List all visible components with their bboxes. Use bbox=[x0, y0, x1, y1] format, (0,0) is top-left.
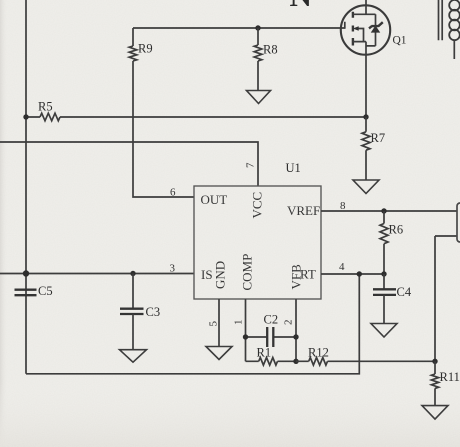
node: dot RT / bottom-loop wire bbox=[357, 271, 362, 276]
resistor R12 bbox=[296, 360, 435, 362]
node: dot C3 / IS net bbox=[130, 271, 135, 276]
transistor Q1 (N-MOSFET) bbox=[341, 0, 407, 117]
ground below R11 bbox=[422, 406, 448, 420]
resistor R9 bbox=[133, 28, 194, 197]
wire: VREF pin 8 net y=211 bbox=[321, 210, 457, 212]
wire: R11 branch to connector bbox=[435, 236, 457, 361]
node: dot RT / R6 / C4 bbox=[381, 271, 386, 276]
wire: gate net top y=28 bbox=[133, 27, 345, 29]
resistor R5 bbox=[40, 113, 60, 121]
node: dot R8 top bbox=[255, 25, 260, 30]
node: dot R6 top bbox=[381, 208, 386, 213]
wire: R5 net horizontal y=117 bbox=[26, 116, 366, 118]
ground below C3 bbox=[120, 350, 147, 363]
node: dot left rail / IS net bbox=[23, 270, 29, 276]
resistor R6 bbox=[383, 211, 385, 274]
ground below C4 bbox=[371, 324, 397, 338]
wire: VFB pin 2 down to R1 row bbox=[295, 299, 297, 361]
capacitor C3 bbox=[132, 274, 134, 309]
connector / off-page part at right edge bbox=[457, 203, 460, 242]
resistor R8 bbox=[257, 28, 259, 91]
wire: IS net horizontal y=273.5 bbox=[0, 273, 194, 275]
wire: GND pin 5 bbox=[218, 299, 220, 347]
node: dot R1 / R12 / VFB bbox=[293, 359, 298, 364]
wire: left vertical rail x=26 bbox=[25, 0, 27, 374]
node: junction dot left rail / R5 bbox=[23, 114, 28, 119]
transformer T1 core bbox=[439, 0, 443, 40]
capacitor C4 bbox=[383, 274, 385, 289]
node: dot R12 row / R11 bbox=[432, 359, 437, 364]
resistor R11 bbox=[434, 361, 436, 405]
capacitor C2 bbox=[246, 336, 297, 338]
resistor R1 bbox=[246, 360, 297, 362]
resistor R7 bbox=[365, 117, 367, 180]
capacitor C5 bbox=[15, 290, 37, 296]
wire: winding stub bbox=[453, 40, 455, 59]
wire: VCC net horizontal y=142 into pin 7 bbox=[0, 142, 258, 186]
ground below R7 bbox=[353, 180, 379, 194]
node: dot Q1 source / R5 net bbox=[363, 114, 368, 119]
node: dot VFB / C2 bbox=[293, 334, 298, 339]
wire: bottom rail to RT node bbox=[26, 274, 359, 374]
wire: RT pin 4 net y=274 bbox=[321, 273, 384, 275]
transformer T1 winding bbox=[449, 0, 460, 40]
wire: COMP pin 1 down to R1 row bbox=[245, 299, 247, 361]
ground below GND pin bbox=[206, 347, 232, 360]
op-amp U1 (PWM controller IC body) bbox=[194, 186, 321, 299]
ground below R8 bbox=[247, 91, 271, 104]
node: dot COMP / C2 bbox=[243, 334, 248, 339]
